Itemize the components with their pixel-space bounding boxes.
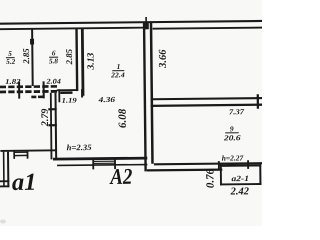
svg-text:22.4: 22.4 [110, 71, 125, 79]
main vertical thick wall left line [143, 23, 147, 172]
svg-text:7.37: 7.37 [229, 107, 245, 116]
wall between room 5 and room 6 [31, 29, 34, 86]
wall between big room and room 9 line1 [151, 97, 266, 100]
tick on band at x19 [18, 82, 20, 99]
corridor window stripe2 [94, 163, 115, 164]
tick at balcony left [218, 161, 220, 169]
doorway right jamb tick [81, 89, 83, 98]
svg-text:6: 6 [52, 49, 56, 57]
door hinge blob on wall 5/6 [30, 39, 34, 45]
balcony a1 rail vertical line2 [7, 152, 9, 188]
balcony a1 rail bottom line1 [0, 180, 9, 182]
room 9 floor inner line [154, 162, 266, 165]
room 6 fraction line [49, 57, 58, 58]
window a1 right tick [27, 151, 29, 159]
window a1 line1 [14, 152, 28, 153]
window a1 left tick [13, 151, 15, 159]
svg-text:1.82: 1.82 [5, 78, 21, 86]
dim tick 7.37 [257, 94, 259, 109]
svg-text:0.76: 0.76 [204, 168, 216, 188]
lower-left room bottom wall [0, 149, 57, 151]
svg-text:h=2.35: h=2.35 [67, 143, 92, 152]
svg-text:A2: A2 [109, 164, 133, 189]
balcony a2-1 bottom edge [220, 183, 261, 185]
svg-text:5.2: 5.2 [6, 58, 15, 66]
svg-text:a2-1: a2-1 [231, 174, 249, 183]
corridor left wall line1 [50, 93, 52, 160]
svg-text:20.6: 20.6 [223, 133, 241, 142]
svg-text:2.42: 2.42 [230, 186, 250, 197]
top exterior wall outer line [0, 20, 265, 25]
wall room6/corridor right line [81, 28, 85, 95]
corridor window left tick [92, 158, 94, 169]
corridor bottom wall bottom line [57, 164, 147, 167]
doorway threshold dark bar [60, 91, 72, 94]
svg-text:a1: a1 [12, 169, 37, 196]
tick on room9 floor at x247 [247, 160, 249, 169]
svg-text:4.36: 4.36 [97, 95, 115, 104]
corridor window right tick [114, 158, 116, 169]
room 9 fraction line [225, 132, 239, 133]
svg-text:5.8: 5.8 [49, 57, 58, 65]
room 1 fraction line [112, 70, 124, 71]
faint scan smudge bottom-left [0, 220, 6, 224]
balcony a1 rail vertical line1 [3, 152, 5, 187]
svg-text:5: 5 [8, 50, 12, 58]
svg-text:1: 1 [117, 62, 121, 71]
balcony a2-1 top edge [220, 164, 261, 167]
balcony a2-1 left edge [220, 165, 222, 186]
room 9 floor outer line [147, 168, 223, 171]
svg-text:3.13: 3.13 [85, 52, 96, 70]
room 5 fraction line [6, 57, 15, 58]
balcony a1 rail bottom line2 [0, 185, 9, 187]
balcony a2-1 right edge [259, 164, 261, 185]
wall room6/corridor left line [75, 29, 78, 92]
tick on band at x44 [43, 81, 45, 98]
window a1 line2 [14, 155, 28, 157]
corridor bottom wall top line [53, 157, 147, 161]
svg-text:9: 9 [230, 124, 234, 133]
svg-text:2.85: 2.85 [21, 48, 31, 65]
band lower stub dash 1 [31, 96, 36, 99]
svg-text:2.79: 2.79 [40, 109, 51, 128]
corridor window stripe1 [93, 161, 114, 162]
hatched interior wall band row2 [0, 91, 6, 94]
door crossbar tick upper [48, 108, 56, 110]
svg-text:3.66: 3.66 [158, 49, 169, 69]
main vertical thick wall right line [150, 23, 154, 164]
svg-text:h=2.27: h=2.27 [222, 153, 244, 162]
band lower stub dash 2 [38, 96, 43, 99]
corridor left wall line2 [54, 93, 57, 160]
svg-text:2.04: 2.04 [45, 78, 61, 86]
svg-text:2.85: 2.85 [64, 48, 74, 65]
big room inner top line [153, 27, 265, 30]
svg-text:1.19: 1.19 [62, 97, 78, 105]
top exterior wall inner line [0, 27, 146, 30]
svg-text:6.08: 6.08 [117, 108, 129, 128]
doorway left jamb tick [58, 89, 60, 102]
door crossbar tick lower [48, 124, 56, 126]
hatched interior wall band row1 [0, 86, 6, 89]
doorway lintel line (1.19 door) [57, 89, 76, 91]
small tick above top wall at junction [145, 17, 147, 21]
top junction plug [145, 23, 149, 30]
wall between big room and room 9 line2 [151, 103, 266, 107]
